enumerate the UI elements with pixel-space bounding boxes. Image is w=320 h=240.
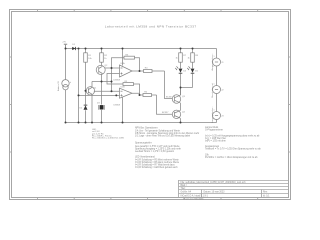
wire current sense node	[92, 81, 112, 83]
frame ticks	[10, 10, 291, 200]
svg-text:kicad 5.1.9-73d0e3b86: kicad 5.1.9-73d0e3b86	[183, 199, 204, 201]
power flag +9V	[65, 45, 67, 49]
resistor R7	[179, 49, 183, 69]
svg-text:File: selbstbau_labornetzteil_: File: selbstbau_labornetzteil_lm358_bc33…	[181, 181, 247, 184]
junction dots	[65, 48, 194, 124]
transistor Q4	[172, 110, 180, 122]
svg-text:Rev:: Rev:	[263, 192, 268, 194]
resistor R2	[100, 49, 104, 66]
svg-text:Q2: Q2	[105, 65, 109, 67]
svg-text:Ausgangsbuchse +: Ausgangsbuchse +	[211, 53, 214, 71]
svg-text:D1: D1	[72, 44, 76, 46]
svg-text:Teilstrom = Tx 0,7V = 1/25 Ohm: Teilstrom = Tx 0,7V = 1/25 Ohm Spannung …	[205, 148, 261, 151]
svg-text:Datum: 10 mar 2023: Datum: 10 mar 2023	[204, 191, 226, 194]
note text block middle	[135, 127, 199, 170]
svg-text:BC337: BC337	[166, 97, 173, 99]
svg-text:D4: D4	[183, 71, 187, 73]
wire R3 leg to U1B inverting	[111, 68, 113, 91]
svg-text:BC337: BC337	[162, 112, 169, 114]
wire U1A power from rail	[122, 49, 124, 66]
svg-text:KiCad E.D.A. kicad 5.1.9-1: KiCad E.D.A. kicad 5.1.9-1	[181, 195, 209, 198]
svg-text:Labornetzteil mit LM358 und NP: Labornetzteil mit LM358 und NPN Transist…	[105, 25, 197, 29]
svg-text:1k: 1k	[175, 58, 178, 60]
svg-text:+: +	[70, 82, 72, 84]
resistor R1	[84, 49, 88, 105]
sheet frame inner	[12, 12, 289, 198]
svg-text:R1: R1	[88, 55, 92, 57]
battery BT1	[62, 49, 69, 123]
wire U1B noninverting input	[79, 94, 120, 96]
connector J2	[213, 86, 221, 112]
svg-text:Messbuchse rot: Messbuchse rot	[211, 83, 214, 98]
diode D3	[99, 105, 105, 123]
wire R6 to Q4 base	[157, 95, 175, 114]
svg-text:U1A: U1A	[121, 62, 126, 65]
svg-text:Q3: Q3	[182, 96, 186, 98]
diode D2	[84, 105, 88, 122]
title block text	[181, 181, 271, 198]
wire U1B power to bottom rail	[122, 97, 124, 123]
svg-text:NPN Bxx Operationen: NPN Bxx Operationen	[135, 127, 158, 130]
svg-text:Id: 1/1: Id: 1/1	[263, 196, 270, 198]
svg-text:Batterie 9V: Batterie 9V	[57, 80, 60, 91]
wire bottom rail	[66, 122, 217, 124]
connector J3	[213, 112, 221, 123]
transistor Q1	[86, 82, 95, 123]
svg-text:Titel:: Titel:	[181, 187, 186, 190]
svg-text:Ausgangsbuchse -: Ausgangsbuchse -	[211, 106, 214, 123]
wire R4 to Q3 base	[165, 71, 175, 99]
transistor Q2	[96, 65, 111, 104]
transistor Q3	[172, 88, 180, 111]
svg-text:U1B: U1B	[121, 87, 126, 89]
svg-text:Ix(P) = 1/25 mit dem: Ix(P) = 1/25 mit dem	[205, 140, 226, 143]
note text block right	[205, 126, 261, 159]
resistor R8	[191, 49, 195, 69]
wire D5 to D4 column	[181, 87, 193, 89]
svg-text:1/C Lage - ohne Rest Teil und: 1/C Lage - ohne Rest Teil und Cs LED Mes…	[135, 135, 191, 138]
resistor R6	[140, 94, 157, 97]
svg-text:Q4: Q4	[182, 111, 186, 113]
op-amp U1A	[120, 65, 133, 77]
connector J1	[213, 49, 221, 86]
svg-text:J1: J1	[221, 62, 224, 64]
svg-text:J3: J3	[221, 116, 224, 118]
svg-text:Ausgangsrest: Ausgangsrest	[205, 145, 219, 148]
svg-text:Rv = 330Ohm = 0,33kOhm 1/4W: Rv = 330Ohm = 0,33kOhm 1/4W	[92, 138, 125, 140]
wire column A	[78, 49, 80, 123]
LED D5	[187, 66, 194, 87]
svg-text:Pv/10hm = 1x23xx = 10xxx Einsp: Pv/10hm = 1x23xx = 10xxx Einsparungen mi…	[205, 156, 258, 159]
sheet frame outer	[10, 10, 291, 200]
resistor R5	[123, 83, 140, 95]
wire U1A inverting input	[112, 67, 120, 69]
svg-text:Größe: A4: Größe: A4	[181, 191, 192, 194]
svg-text:10k: 10k	[88, 58, 92, 60]
wire U1B output	[132, 93, 140, 95]
resistor R3	[112, 56, 135, 68]
LED D4	[175, 66, 182, 95]
svg-text:Leerlauf Strom = 1,2*R = 0,6V: Leerlauf Strom = 1,2*R = 0,6V gesamt	[135, 150, 174, 153]
svg-text:R7: R7	[183, 55, 187, 57]
title block border	[179, 180, 289, 198]
svg-text:LM358: LM358	[114, 79, 121, 81]
note text block left	[92, 129, 125, 140]
svg-text:Q1: Q1	[94, 88, 98, 90]
svg-text:LM358: LM358	[114, 104, 121, 106]
wire U1A output	[132, 70, 140, 72]
svg-text:Blatt: /: Blatt: /	[181, 184, 188, 187]
svg-text:D3: D3	[97, 103, 101, 105]
wire U1A noninverting input	[107, 74, 123, 85]
svg-text:J2: J2	[221, 90, 224, 92]
svg-text:+9V: +9V	[62, 42, 66, 44]
svg-text:R8: R8	[195, 55, 199, 57]
svg-text:D5: D5	[195, 71, 199, 73]
svg-text:D2: D2	[80, 108, 84, 110]
diode D1	[72, 47, 75, 50]
resistor R4	[140, 70, 165, 73]
svg-text:Spannungsteiler: Spannungsteiler	[135, 142, 152, 145]
svg-text:I=U,R Schaltung = LED Rest geb: I=U,R Schaltung = LED Rest gebaut auch	[135, 166, 178, 169]
wire U1B inverting input	[94, 90, 120, 92]
svg-text:O-Programmierer: O-Programmierer	[205, 128, 223, 131]
op-amp U1B	[120, 88, 133, 98]
svg-text:LED Vorwiderstand: LED Vorwiderstand	[135, 156, 155, 159]
svg-text:R2: R2	[104, 55, 108, 57]
wire R3 feedback right leg	[135, 58, 140, 71]
svg-text:1k: 1k	[187, 58, 190, 60]
svg-text:1k: 1k	[104, 58, 107, 60]
wire top rail	[66, 48, 217, 50]
